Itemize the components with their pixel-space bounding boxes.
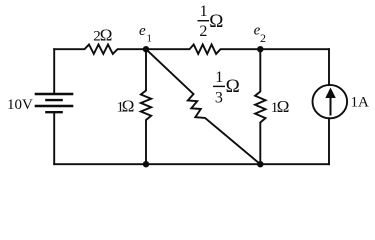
svg-text:Ω: Ω (100, 26, 113, 45)
svg-text:e: e (139, 23, 146, 39)
svg-text:Ω: Ω (226, 76, 240, 97)
svg-text:1: 1 (200, 3, 208, 20)
svg-text:Ω: Ω (209, 11, 223, 32)
svg-text:Ω: Ω (122, 97, 135, 116)
svg-text:2: 2 (260, 31, 266, 45)
svg-text:10V: 10V (7, 97, 33, 113)
svg-text:2: 2 (199, 23, 207, 40)
svg-text:Ω: Ω (277, 97, 290, 116)
svg-text:3: 3 (215, 89, 223, 106)
svg-text:1A: 1A (351, 95, 370, 111)
svg-text:1: 1 (147, 33, 153, 45)
svg-text:1: 1 (215, 69, 223, 86)
